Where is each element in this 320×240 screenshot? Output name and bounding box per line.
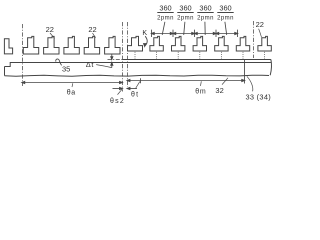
svg-text:Δt: Δt — [86, 60, 94, 69]
svg-text:32: 32 — [215, 86, 223, 95]
svg-text:33 (34): 33 (34) — [246, 93, 272, 102]
svg-text:35: 35 — [62, 64, 70, 73]
svg-text:22: 22 — [88, 25, 96, 34]
svg-text:22: 22 — [46, 25, 54, 34]
svg-text:360: 360 — [179, 4, 191, 13]
svg-text:2pmn: 2pmn — [157, 15, 174, 21]
svg-text:22: 22 — [256, 20, 264, 29]
svg-text:2pmn: 2pmn — [217, 15, 234, 21]
svg-text:360: 360 — [219, 4, 231, 13]
svg-text:2pmn: 2pmn — [197, 15, 214, 21]
svg-text:K: K — [142, 30, 147, 37]
svg-text:360: 360 — [199, 4, 211, 13]
svg-text:360: 360 — [159, 4, 171, 13]
svg-text:2pmn: 2pmn — [177, 15, 194, 21]
svg-text:θm: θm — [195, 88, 206, 95]
svg-text:θa: θa — [67, 89, 76, 96]
svg-text:θt: θt — [131, 92, 139, 99]
svg-text:θs2: θs2 — [110, 98, 125, 105]
